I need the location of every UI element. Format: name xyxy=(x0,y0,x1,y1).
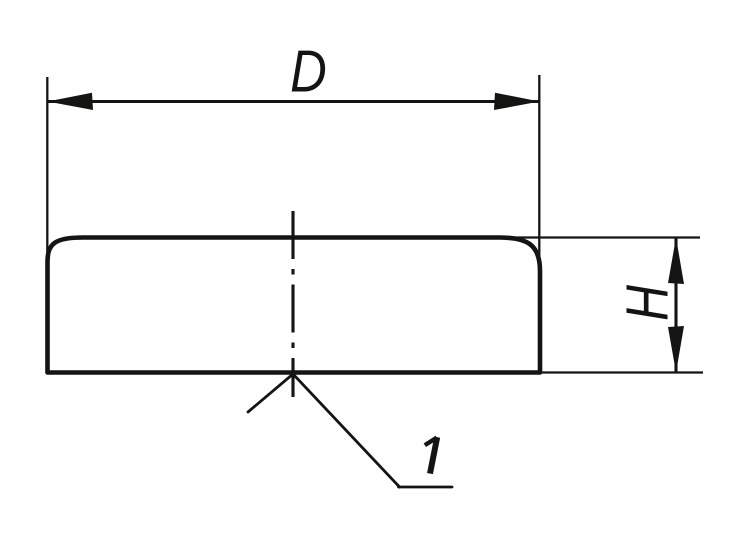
dimension D: right arrowhead xyxy=(494,93,540,110)
dimension H: bottom arrowhead xyxy=(668,326,684,373)
callout 1: left arrow leg xyxy=(248,374,293,412)
callout 1: leader line to bottom face xyxy=(293,374,400,487)
label 1 xyxy=(425,437,437,473)
dimension D: left extension line xyxy=(46,77,48,261)
dimension D: left arrowhead xyxy=(48,93,94,110)
dimension D: right extension line xyxy=(538,75,540,258)
part outline (flat pot body, rounded top corners) xyxy=(48,238,541,373)
svg-text:H: H xyxy=(614,285,680,321)
callout 1: underline shelf xyxy=(399,486,453,489)
svg-text:D: D xyxy=(290,38,327,104)
dimension H: top arrowhead xyxy=(668,238,684,285)
dimension H: top extension line xyxy=(492,236,700,238)
dimension D: dimension line xyxy=(48,100,540,103)
centerline (vertical dash-dot axis) xyxy=(291,211,294,397)
dimension H: bottom extension line xyxy=(541,371,703,373)
dimension H: dimension line xyxy=(674,238,677,373)
